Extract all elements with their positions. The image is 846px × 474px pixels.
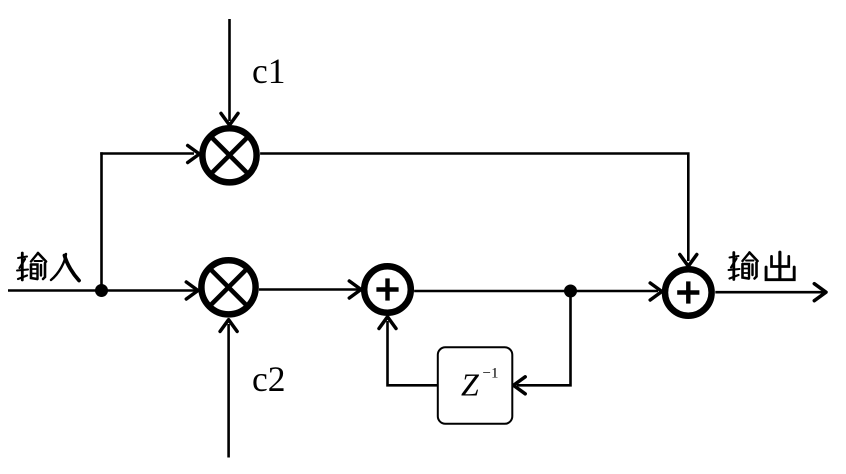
arrow into A1 bottom bbox=[379, 317, 396, 329]
arrow into M1 left bbox=[188, 146, 200, 163]
arrow into A1 left bbox=[349, 281, 361, 298]
node A: input branch dot bbox=[95, 284, 108, 297]
wire: c2 vertical into M2 bottom bbox=[227, 324, 230, 458]
svg-text:−1: −1 bbox=[483, 366, 499, 382]
svg-text:c1: c1 bbox=[252, 51, 286, 91]
arrow into M1 top bbox=[221, 113, 238, 125]
svg-text:c2: c2 bbox=[252, 359, 286, 399]
multiplier M2 bbox=[201, 260, 255, 314]
arrow output bbox=[814, 284, 826, 301]
adder A2 bbox=[665, 269, 712, 316]
wire: M2 to adder A1 bbox=[259, 288, 360, 291]
arrow into A2 left bbox=[650, 283, 662, 300]
wire: branch up from node A bbox=[100, 152, 103, 290]
multiplier M1 bbox=[202, 128, 256, 182]
delay block Z^-1 bbox=[438, 347, 513, 424]
wire: c1 vertical into M1 top bbox=[228, 19, 231, 121]
node B: feedback tap dot bbox=[564, 285, 577, 298]
wire: feedback from node B down and left into Z box bbox=[517, 291, 571, 385]
wire: Z box output left and up into A1 bottom bbox=[388, 321, 438, 385]
wire: input horizontal line bbox=[8, 289, 198, 292]
arrow into Z box right bbox=[514, 377, 526, 394]
svg-text:Z: Z bbox=[461, 367, 480, 403]
arrow into M2 left bbox=[186, 282, 198, 299]
adder A1 bbox=[364, 266, 411, 313]
label 输出 (output) bbox=[729, 252, 795, 279]
arrow into M2 bottom bbox=[220, 320, 237, 332]
wire: output line bbox=[715, 291, 824, 294]
label 输入 (input) bbox=[17, 253, 79, 281]
arrow into A2 top bbox=[680, 255, 697, 267]
wire: top horizontal into multiplier M1 bbox=[100, 152, 194, 155]
wire: A1 to adder A2 bbox=[414, 290, 658, 293]
wire: M1 output to top-right corner and down bbox=[260, 154, 688, 262]
